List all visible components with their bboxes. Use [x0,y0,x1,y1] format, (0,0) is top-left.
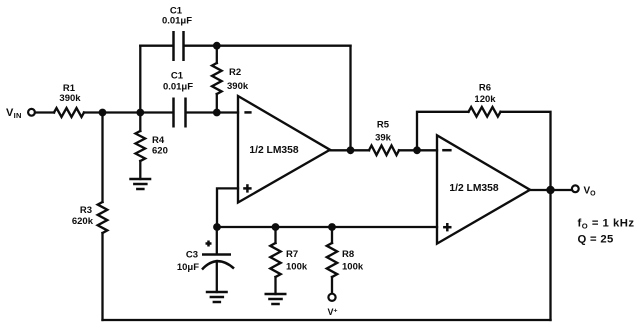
capacitor C1 (feedback) [172,31,175,61]
op-amp U1 (1/2 LM358) [238,96,330,203]
svg-text:390k: 390k [227,81,249,92]
resistor R5 [369,146,399,156]
wire [330,149,369,151]
wire bottom rail [103,319,551,321]
node top [213,42,221,50]
wire [35,111,54,113]
svg-text:100k: 100k [286,262,308,273]
capacitor C1 (series) [172,98,175,128]
wire [101,113,103,203]
svg-text:390k: 390k [59,93,81,104]
wire [530,189,572,191]
wire [417,112,469,151]
node A [99,109,107,117]
node op1 out [347,146,355,154]
node C [213,109,221,117]
svg-text:0.01μF: 0.01μF [162,16,192,27]
ground [206,292,228,302]
svg-text:Q = 25: Q = 25 [578,234,614,246]
svg-text:1/2 LM358: 1/2 LM358 [249,145,298,156]
svg-text:620k: 620k [72,216,94,227]
svg-text:R5: R5 [377,120,390,131]
resistor R4 [139,113,141,132]
wire [331,277,333,294]
node G [272,223,280,231]
resistor R8 [331,227,333,243]
svg-text:10μF: 10μF [177,262,199,273]
terminal V+ [328,294,335,301]
ground [129,179,151,189]
svg-text:R6: R6 [479,83,491,94]
svg-text:100k: 100k [342,262,364,273]
resistor R6 [469,107,501,117]
svg-text:R8: R8 [342,249,354,260]
svg-text:120k: 120k [474,94,496,105]
svg-text:R3: R3 [80,205,92,216]
svg-text:1/2 LM358: 1/2 LM358 [449,183,498,194]
svg-text:620: 620 [152,146,168,157]
wire [217,226,437,228]
wire [84,111,103,113]
wire [501,112,551,190]
wire [140,111,172,113]
resistor R3 [98,202,108,233]
wire [274,277,276,294]
wire [217,188,238,227]
node H [328,223,336,231]
node F [213,223,221,231]
ground [265,294,287,304]
wire [399,149,437,151]
resistor R1 [54,108,84,117]
wire [103,111,141,113]
wire [216,94,218,113]
wire [216,261,218,292]
wire [187,111,239,113]
wire [101,233,103,320]
node D [413,146,421,154]
wire [549,190,551,320]
svg-text:R7: R7 [286,249,298,260]
capacitor C3 [216,227,218,254]
node B [136,109,144,117]
wire [185,45,351,47]
resistor R2 [216,46,218,63]
op-amp U2 (1/2 LM358) [437,135,530,243]
resistor R7 [274,227,276,243]
svg-text:R2: R2 [229,67,241,78]
svg-text:C1: C1 [171,71,184,82]
node E [546,186,554,194]
svg-text:0.01μF: 0.01μF [163,82,193,93]
input terminal [28,109,35,116]
svg-text:R4: R4 [152,135,165,146]
wire [349,46,351,151]
wire [139,161,141,179]
output terminal VO [572,185,579,192]
svg-text:C3: C3 [186,250,198,261]
svg-text:39k: 39k [375,133,392,144]
wire [139,46,141,113]
